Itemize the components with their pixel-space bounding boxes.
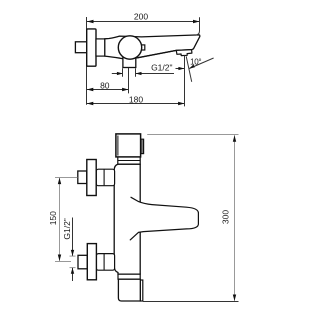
svg-text:150: 150 bbox=[48, 211, 58, 225]
outlet left edge extension bbox=[122, 68, 124, 77]
handle knob circle (side view) bbox=[118, 36, 141, 59]
dimension 80 left arrow bbox=[87, 88, 94, 91]
upper wall square bbox=[78, 171, 87, 184]
wall connector square (side view) bbox=[75, 42, 86, 53]
svg-text:200: 200 bbox=[134, 11, 148, 21]
10deg leader arrow bbox=[189, 65, 195, 69]
shower outlet below handle bbox=[123, 57, 136, 68]
G1/2 dim line left part (outlet) bbox=[112, 73, 123, 75]
G1/2 dim lower tick bbox=[70, 267, 76, 269]
svg-text:300: 300 bbox=[221, 210, 231, 224]
lower wall flange bbox=[87, 244, 96, 280]
G1/2 lower arrow pointing up bbox=[71, 268, 74, 274]
bottom knob neck band bbox=[118, 274, 140, 279]
spout underside line bbox=[138, 50, 176, 57]
dimension 180 right arrow bbox=[178, 102, 185, 105]
neck band mid line bbox=[118, 160, 140, 162]
dimension 300 bottom arrow bbox=[233, 295, 236, 302]
G1/2 right arrow pointing left bbox=[136, 72, 142, 75]
dimension 300 top extension line bbox=[147, 134, 238, 136]
dimension 200 extension line right (spout tip) bbox=[195, 17, 200, 35]
dimension 150 lower extension line bbox=[55, 261, 71, 263]
upper wall flange bbox=[87, 160, 96, 196]
dimension 200 left arrow bbox=[87, 20, 94, 23]
spray 10deg tilted line bbox=[186, 56, 192, 82]
G1/2 dim (front view) upper tick bbox=[70, 255, 76, 257]
lower wall square bbox=[78, 255, 87, 268]
lower connector joint line bbox=[103, 254, 105, 270]
G1/2 left arrow pointing right bbox=[117, 72, 123, 75]
bottom knob box bbox=[118, 279, 140, 301]
aerator under spout tip bbox=[176, 50, 192, 56]
top knob inner left line bbox=[117, 136, 119, 156]
neck band under top knob bbox=[118, 157, 140, 164]
top knob tab mid line bbox=[141, 140, 143, 153]
bottom knob right cap bbox=[140, 280, 143, 301]
svg-text:G1/2": G1/2" bbox=[62, 218, 72, 239]
dimension 150 top arrow bbox=[58, 178, 61, 185]
lower connector (pipe + boss) bbox=[96, 254, 114, 271]
G1/2 dim line upper bbox=[72, 218, 74, 256]
10deg leader line bbox=[189, 58, 213, 69]
dimension 200 line bbox=[87, 21, 200, 23]
dimension 150 upper extension line bbox=[55, 177, 78, 179]
G1/2 upper arrow pointing down bbox=[71, 250, 74, 256]
body column (front view) bbox=[114, 164, 140, 274]
dimension 80 right arrow bbox=[122, 88, 129, 91]
body + spout outline (side view) bbox=[105, 35, 200, 59]
outlet right edge extension bbox=[135, 68, 137, 77]
top knob box bbox=[116, 134, 141, 157]
dimension 300 top arrow bbox=[233, 135, 236, 142]
outlet axis extension line bbox=[128, 68, 130, 94]
connector pipe flange-to-body bbox=[96, 39, 105, 56]
dimension 150 line bbox=[59, 178, 61, 261]
wall/extension line left (side view) bbox=[86, 17, 88, 105]
upper connector joint line bbox=[103, 170, 105, 186]
dimension 300 bottom extension line bbox=[143, 301, 239, 303]
top knob tab (right) bbox=[141, 139, 144, 153]
G1/2 leader to aerator axis bbox=[176, 68, 185, 70]
G1/2 leader arrow bbox=[178, 67, 184, 70]
dimension 180 left arrow bbox=[87, 102, 94, 105]
G1/2 dim line right part bbox=[136, 73, 174, 75]
dimension 300 line bbox=[234, 135, 236, 301]
aerator axis vertical line bbox=[184, 56, 186, 107]
dimension 80 line bbox=[87, 89, 129, 91]
svg-text:180: 180 bbox=[129, 94, 143, 104]
upper connector (pipe + boss) bbox=[96, 169, 114, 186]
svg-text:10°: 10° bbox=[190, 58, 201, 67]
dimension 150 bottom arrow bbox=[58, 255, 61, 262]
spout front view bbox=[130, 197, 198, 240]
svg-text:G1/2": G1/2" bbox=[151, 62, 172, 72]
svg-text:80: 80 bbox=[100, 80, 110, 90]
wall flange (side view) bbox=[87, 29, 96, 66]
G1/2 dim line lower bbox=[72, 268, 74, 281]
handle tab right of knob bbox=[141, 45, 145, 50]
dimension 200 right arrow bbox=[193, 20, 200, 23]
dimension 180 line bbox=[87, 103, 185, 105]
